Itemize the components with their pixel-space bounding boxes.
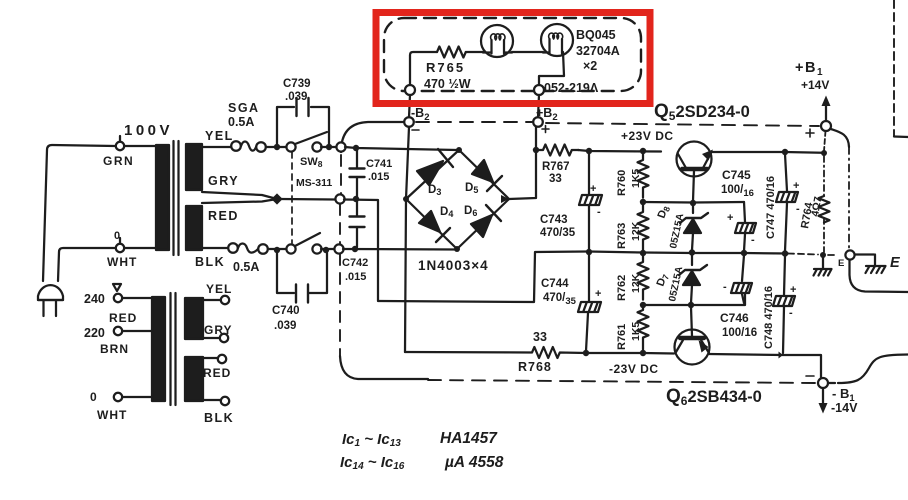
diode D5 bbox=[472, 160, 493, 182]
svg-text:HA1457: HA1457 bbox=[440, 430, 498, 447]
svg-text:12K: 12K bbox=[630, 221, 642, 241]
terminal 220 tap bbox=[114, 327, 122, 335]
svg-text:0.5A: 0.5A bbox=[228, 115, 254, 129]
node Q6 base/zener D7 bbox=[688, 302, 694, 308]
svg-text:R765: R765 bbox=[426, 60, 465, 75]
svg-text:GRY: GRY bbox=[204, 323, 233, 337]
0V dash to E pin bbox=[788, 254, 838, 256]
transistor Q5 2SD234-0 bbox=[677, 142, 712, 177]
wire BLK pin to bridge bottom bbox=[343, 248, 457, 251]
svg-text:470/35: 470/35 bbox=[543, 292, 577, 307]
terminal T2 BLK bbox=[221, 397, 229, 405]
ground below R764 bbox=[814, 258, 832, 276]
terminal 0 WHT tap bbox=[114, 393, 122, 401]
wire R765 to lamp PL1 bbox=[466, 51, 483, 53]
transformer T1 primary winding bbox=[156, 145, 169, 250]
0V mid rail bbox=[589, 252, 788, 254]
svg-text:.015: .015 bbox=[345, 271, 366, 283]
terminal T2 YEL bbox=[221, 296, 229, 304]
svg-text:100V: 100V bbox=[124, 122, 173, 139]
terminal T2 GRY bbox=[220, 334, 228, 342]
wire +B1 pin to rail junction bbox=[824, 131, 826, 151]
node C741/C742 on GRY line bbox=[353, 196, 359, 202]
wire -B pin through red band to -B2 bbox=[409, 95, 410, 117]
svg-text:470 ½W: 470 ½W bbox=[424, 77, 471, 91]
svg-text:BLK: BLK bbox=[195, 255, 225, 269]
svg-text:R767: R767 bbox=[542, 161, 570, 173]
svg-text:0.5A: 0.5A bbox=[233, 260, 259, 274]
transformer T1 secondary winding upper (YEL/GRY) bbox=[186, 144, 202, 190]
capacitor C746 100/16 leads bbox=[742, 255, 744, 303]
capacitor C746 body bbox=[731, 283, 752, 293]
node bridge right (+) bbox=[501, 195, 509, 203]
svg-text:-: - bbox=[597, 206, 601, 218]
svg-text:C748 470/16: C748 470/16 bbox=[763, 286, 775, 349]
svg-text:.039: .039 bbox=[285, 91, 307, 103]
svg-text:+B1: +B1 bbox=[795, 60, 824, 78]
wire PL1 to PL2 bbox=[512, 51, 543, 53]
node C747/C748 mid bbox=[782, 250, 788, 256]
boundary below E pin exiting right bbox=[850, 260, 908, 292]
minus mark at -B1 bbox=[806, 375, 814, 377]
svg-text:SGA: SGA bbox=[228, 101, 260, 115]
svg-text:052-219Λ: 052-219Λ bbox=[544, 81, 599, 95]
svg-text:33: 33 bbox=[549, 173, 562, 185]
svg-text:240: 240 bbox=[84, 292, 105, 306]
Q5 base lead bbox=[693, 171, 694, 201]
capacitor C747 body bbox=[776, 192, 798, 202]
node R760/R763 base+ bbox=[640, 199, 646, 205]
diode D3 bbox=[417, 161, 443, 185]
wire +B pin through red band to +B2 bbox=[538, 95, 539, 117]
capacitor C748 body bbox=[773, 296, 795, 306]
capacitor C748 470/16 leads bbox=[783, 256, 785, 353]
zener diode D8 05Z15A bbox=[692, 205, 694, 213]
+B1 output arrow bbox=[825, 104, 827, 121]
node R763/R762 mid bbox=[640, 250, 646, 256]
resistor R763 12K bbox=[638, 202, 649, 251]
svg-text:-: - bbox=[789, 307, 793, 319]
svg-text:BLK: BLK bbox=[204, 411, 234, 425]
svg-text:05Z15A: 05Z15A bbox=[668, 213, 686, 250]
svg-text:C747 470/16: C747 470/16 bbox=[765, 176, 777, 239]
svg-text:C742: C742 bbox=[342, 257, 368, 269]
svg-text:R762: R762 bbox=[616, 275, 628, 301]
connector pin +B1 bbox=[821, 121, 831, 131]
svg-text:C745: C745 bbox=[722, 168, 751, 182]
svg-text:C744: C744 bbox=[541, 278, 569, 290]
svg-text:Q52SD234-0: Q52SD234-0 bbox=[654, 101, 750, 123]
resistor R761 1K5 bbox=[638, 305, 649, 350]
svg-text:100/16: 100/16 bbox=[722, 327, 757, 339]
svg-text:D7: D7 bbox=[655, 272, 672, 289]
PCB boundary top dashed edge bbox=[416, 122, 819, 126]
node bridge bottom (AC) bbox=[454, 246, 460, 252]
node R764 bottom / 0V bbox=[820, 252, 826, 258]
node C745/C746 mid bbox=[741, 250, 747, 256]
switch SW8a blade bbox=[295, 132, 327, 144]
wire Q5 emitter rail to +B1 bbox=[712, 151, 822, 154]
svg-text:R763: R763 bbox=[616, 223, 628, 249]
lamp unit pin +B bbox=[534, 85, 544, 95]
svg-text:1K5: 1K5 bbox=[630, 322, 642, 341]
capacitor C743 body bbox=[579, 195, 602, 205]
-B1 output arrow bbox=[822, 389, 824, 405]
wire center-tap to connector bbox=[281, 198, 335, 201]
svg-text:0: 0 bbox=[114, 230, 120, 242]
resistor R760 1K5 bbox=[638, 151, 649, 198]
terminal T2 RED bbox=[218, 355, 226, 363]
junction GRY/RED merge bbox=[271, 193, 282, 204]
node C739 right tap bbox=[326, 144, 332, 150]
wire -B pin up to R765 bbox=[410, 52, 437, 85]
plus mark at +B2 bbox=[542, 126, 549, 133]
svg-text:-: - bbox=[751, 234, 755, 246]
svg-text:+: + bbox=[727, 212, 733, 224]
svg-text:RED: RED bbox=[203, 366, 231, 380]
svg-text:D8: D8 bbox=[656, 204, 673, 221]
resistor R764 4.7 dash-dot leads bbox=[823, 156, 825, 196]
svg-text:Ic14 ~ Ic16: Ic14 ~ Ic16 bbox=[340, 454, 405, 472]
node bridge left (DC minus) bbox=[403, 196, 409, 202]
wire plug to GRN terminal bbox=[43, 145, 115, 281]
AC plug P1 bbox=[38, 285, 63, 300]
fuse F1 SGA 0.5A bbox=[231, 141, 241, 151]
node zener mid bbox=[689, 249, 695, 255]
connector pin BLK bbox=[334, 244, 343, 253]
svg-text:470/35: 470/35 bbox=[540, 227, 576, 239]
PCB boundary left dashed edge bbox=[340, 155, 341, 356]
svg-text:-: - bbox=[723, 281, 727, 293]
diode D6 bbox=[471, 215, 492, 237]
wire center-tap pin to 0V line bbox=[344, 200, 587, 303]
lamp unit pin -B bbox=[405, 85, 415, 95]
PCB boundary bottom-left corner bbox=[340, 356, 428, 379]
svg-text:R768: R768 bbox=[518, 360, 552, 374]
svg-text:D6: D6 bbox=[464, 205, 477, 218]
transformer T2 secondary upper (YEL/GRY) bbox=[185, 298, 203, 339]
capacitor C743 470/35 leads bbox=[588, 153, 590, 250]
svg-text:-14V: -14V bbox=[831, 401, 858, 415]
svg-text:32704A: 32704A bbox=[576, 44, 620, 58]
capacitor C745 body bbox=[735, 223, 756, 233]
terminal WHT (0 tap) bbox=[116, 244, 124, 252]
resistor R765 470 1/2W bbox=[437, 47, 466, 58]
svg-text:E: E bbox=[890, 255, 901, 271]
svg-text:YEL: YEL bbox=[205, 129, 234, 143]
wire YEL secondary to fuse bbox=[202, 146, 231, 148]
transformer T2 core bbox=[171, 293, 176, 405]
PCB boundary top-left rounded corner bbox=[341, 122, 404, 152]
svg-text:-: - bbox=[796, 203, 800, 215]
svg-text:+: + bbox=[590, 183, 596, 195]
connector pin GRY/RED center tap bbox=[335, 194, 344, 203]
wire -B2 pin down to bridge minus and -23V rail bbox=[405, 127, 409, 352]
node C747 top bbox=[782, 149, 788, 155]
svg-text:Q62SB434-0: Q62SB434-0 bbox=[666, 386, 762, 408]
capacitor C740 .039 across SW8b bbox=[277, 253, 327, 293]
svg-text:E: E bbox=[838, 258, 844, 269]
svg-text:GRY: GRY bbox=[208, 174, 239, 188]
transformer T2 secondary lower (RED/BLK) bbox=[185, 357, 203, 401]
node R761 bottom bbox=[640, 350, 646, 356]
svg-text:.039: .039 bbox=[274, 320, 296, 332]
capacitor C744 470/35 leads bbox=[586, 254, 589, 351]
svg-text:RED: RED bbox=[208, 209, 239, 223]
svg-text:BQ045: BQ045 bbox=[576, 28, 616, 42]
svg-text:µA 4558: µA 4558 bbox=[444, 454, 504, 471]
svg-text:+14V: +14V bbox=[801, 78, 829, 92]
Q6 base row wire to C746 bbox=[643, 294, 745, 305]
switch SW8b pole bbox=[286, 244, 295, 253]
svg-text:33: 33 bbox=[533, 330, 547, 344]
node bridge top (AC) bbox=[456, 147, 462, 153]
Q6 base lead bbox=[691, 307, 692, 336]
svg-text:R761: R761 bbox=[616, 324, 628, 350]
svg-text:0: 0 bbox=[90, 390, 97, 404]
svg-text:12K: 12K bbox=[630, 273, 642, 293]
red highlight box bbox=[376, 13, 650, 104]
lamp PL1 BQ045 bbox=[481, 25, 513, 57]
boundary dashed vertical to E pin bbox=[848, 147, 850, 250]
plus mark at +B1 bbox=[806, 129, 814, 137]
wire bridge plus up to +B2 / R767 bbox=[509, 127, 536, 199]
svg-text:WHT: WHT bbox=[107, 255, 137, 269]
node Q5 base/zener D8 bbox=[690, 200, 696, 206]
node R764 top bbox=[821, 150, 827, 156]
wire E pin to ground bbox=[855, 255, 875, 266]
svg-text:+: + bbox=[595, 288, 601, 300]
wire +23V rail bbox=[578, 150, 661, 152]
wire switch to connector bbox=[321, 248, 335, 250]
E pin connector bbox=[845, 250, 854, 259]
transformer T1 core bbox=[174, 141, 179, 255]
wire -B1 exiting right (S curve) bbox=[828, 355, 908, 384]
svg-text:SW8: SW8 bbox=[300, 156, 323, 169]
lamp PL2 BQ045 bbox=[541, 24, 573, 56]
wire Q6 emitter rail to -B1 bbox=[709, 354, 821, 378]
node R762/R761 base- bbox=[640, 302, 646, 308]
wire fuse to switch SW8b bbox=[268, 248, 286, 250]
adjacent block edge top right bbox=[893, 0, 895, 136]
wire RED secondary to center-tap merge bbox=[202, 199, 277, 203]
svg-text:.015: .015 bbox=[368, 171, 389, 183]
capacitor C742 .015 bbox=[356, 201, 358, 247]
diode D4 bbox=[419, 211, 440, 232]
node C744 bottom bbox=[583, 350, 589, 356]
svg-text:GRN: GRN bbox=[103, 154, 134, 168]
svg-text:+: + bbox=[790, 284, 796, 296]
svg-text:C746: C746 bbox=[720, 311, 749, 325]
node C740 left tap bbox=[274, 247, 280, 253]
bridge rectifier D3-D6 diamond bbox=[406, 150, 509, 249]
connector pin +B2 bbox=[533, 117, 543, 127]
wire WHT to T1 primary bbox=[124, 247, 156, 249]
svg-text:1N4003×4: 1N4003×4 bbox=[418, 258, 489, 273]
ground at E bbox=[866, 266, 886, 273]
node C743 bottom bbox=[586, 249, 592, 255]
node C743 top bbox=[586, 148, 592, 154]
node C740 right tap bbox=[323, 247, 329, 253]
connector pin -B2 bbox=[404, 117, 414, 127]
wire PL2 down to +B pin bbox=[539, 52, 564, 85]
capacitor C744 body bbox=[578, 302, 601, 312]
zener diode D7 05Z15A bbox=[691, 255, 693, 265]
svg-text:C741: C741 bbox=[366, 158, 392, 170]
wire switch to node bbox=[321, 146, 336, 148]
wire BLK secondary to fuse bbox=[202, 247, 228, 249]
terminal 240 tap bbox=[114, 294, 122, 302]
svg-text:-23V DC: -23V DC bbox=[609, 362, 659, 376]
svg-text:1K5: 1K5 bbox=[630, 169, 642, 188]
svg-text:RED: RED bbox=[109, 311, 137, 325]
svg-text:WHT: WHT bbox=[97, 408, 127, 422]
svg-text:220: 220 bbox=[84, 326, 105, 340]
transformer T1 secondary winding lower (RED/BLK) bbox=[186, 206, 202, 250]
svg-text:+23V DC: +23V DC bbox=[621, 129, 674, 143]
boundary curve right of +B1 bbox=[831, 129, 849, 147]
svg-text:R760: R760 bbox=[616, 170, 628, 196]
svg-text:MS-311: MS-311 bbox=[296, 177, 332, 189]
node C741 top bbox=[353, 145, 359, 151]
svg-text:Ic1 ~ Ic13: Ic1 ~ Ic13 bbox=[342, 431, 401, 449]
capacitor C745 100/16 leads bbox=[744, 202, 745, 251]
wire GRY secondary to center-tap merge bbox=[202, 192, 277, 199]
PCB boundary bottom dashed edge bbox=[428, 380, 816, 383]
wire fuse to switch SW8a bbox=[266, 146, 286, 148]
node R767 left / +B2 feed bbox=[533, 147, 539, 153]
svg-text:YEL: YEL bbox=[206, 282, 232, 296]
svg-text:C739: C739 bbox=[283, 78, 311, 90]
svg-text:+: + bbox=[793, 180, 799, 192]
wire GRN to T1 primary bbox=[124, 145, 156, 147]
fuse F2 0.5A bbox=[228, 243, 238, 253]
svg-text:C743: C743 bbox=[540, 214, 568, 226]
minus mark at -B2 bbox=[412, 129, 419, 131]
terminal GRN (100V tap) bbox=[116, 142, 124, 150]
lamp unit 052-219A dashed enclosure bbox=[384, 18, 641, 91]
switch SW8a pole bbox=[286, 142, 295, 151]
node C742 bottom on BLK line bbox=[352, 246, 358, 252]
connector pin YEL bbox=[336, 142, 345, 151]
resistor R762 12K bbox=[638, 253, 649, 300]
svg-text:C740: C740 bbox=[272, 305, 300, 317]
switch SW8b blade bbox=[295, 233, 320, 246]
-23V rail with resistor R768 33 bbox=[405, 347, 674, 358]
svg-text:D5: D5 bbox=[465, 182, 478, 195]
svg-text:×2: ×2 bbox=[583, 59, 597, 73]
node C739 left tap bbox=[274, 144, 280, 150]
svg-text:BRN: BRN bbox=[100, 342, 129, 356]
svg-text:100/16: 100/16 bbox=[721, 184, 754, 199]
capacitor C741 .015 bbox=[356, 150, 358, 197]
transformer T2 primary winding bbox=[152, 297, 165, 401]
capacitor C739 .039 across SW8a bbox=[277, 107, 329, 144]
wire plug to WHT terminal bbox=[58, 248, 115, 281]
svg-text:D4: D4 bbox=[440, 206, 453, 219]
node R760 top bbox=[640, 148, 646, 154]
capacitor C747 470/16 leads bbox=[785, 154, 787, 251]
transistor Q6 2SB434-0 bbox=[675, 330, 710, 365]
node C748 bottom bbox=[779, 352, 784, 359]
connector pin -B1 bbox=[818, 378, 828, 388]
resistor R767 33 bbox=[536, 145, 579, 156]
Q5 base row wire bbox=[643, 201, 744, 204]
svg-text:D3: D3 bbox=[428, 184, 441, 197]
wire YEL pin to bridge top bbox=[345, 147, 457, 150]
switch linkage SW8 dashed bbox=[291, 152, 293, 243]
